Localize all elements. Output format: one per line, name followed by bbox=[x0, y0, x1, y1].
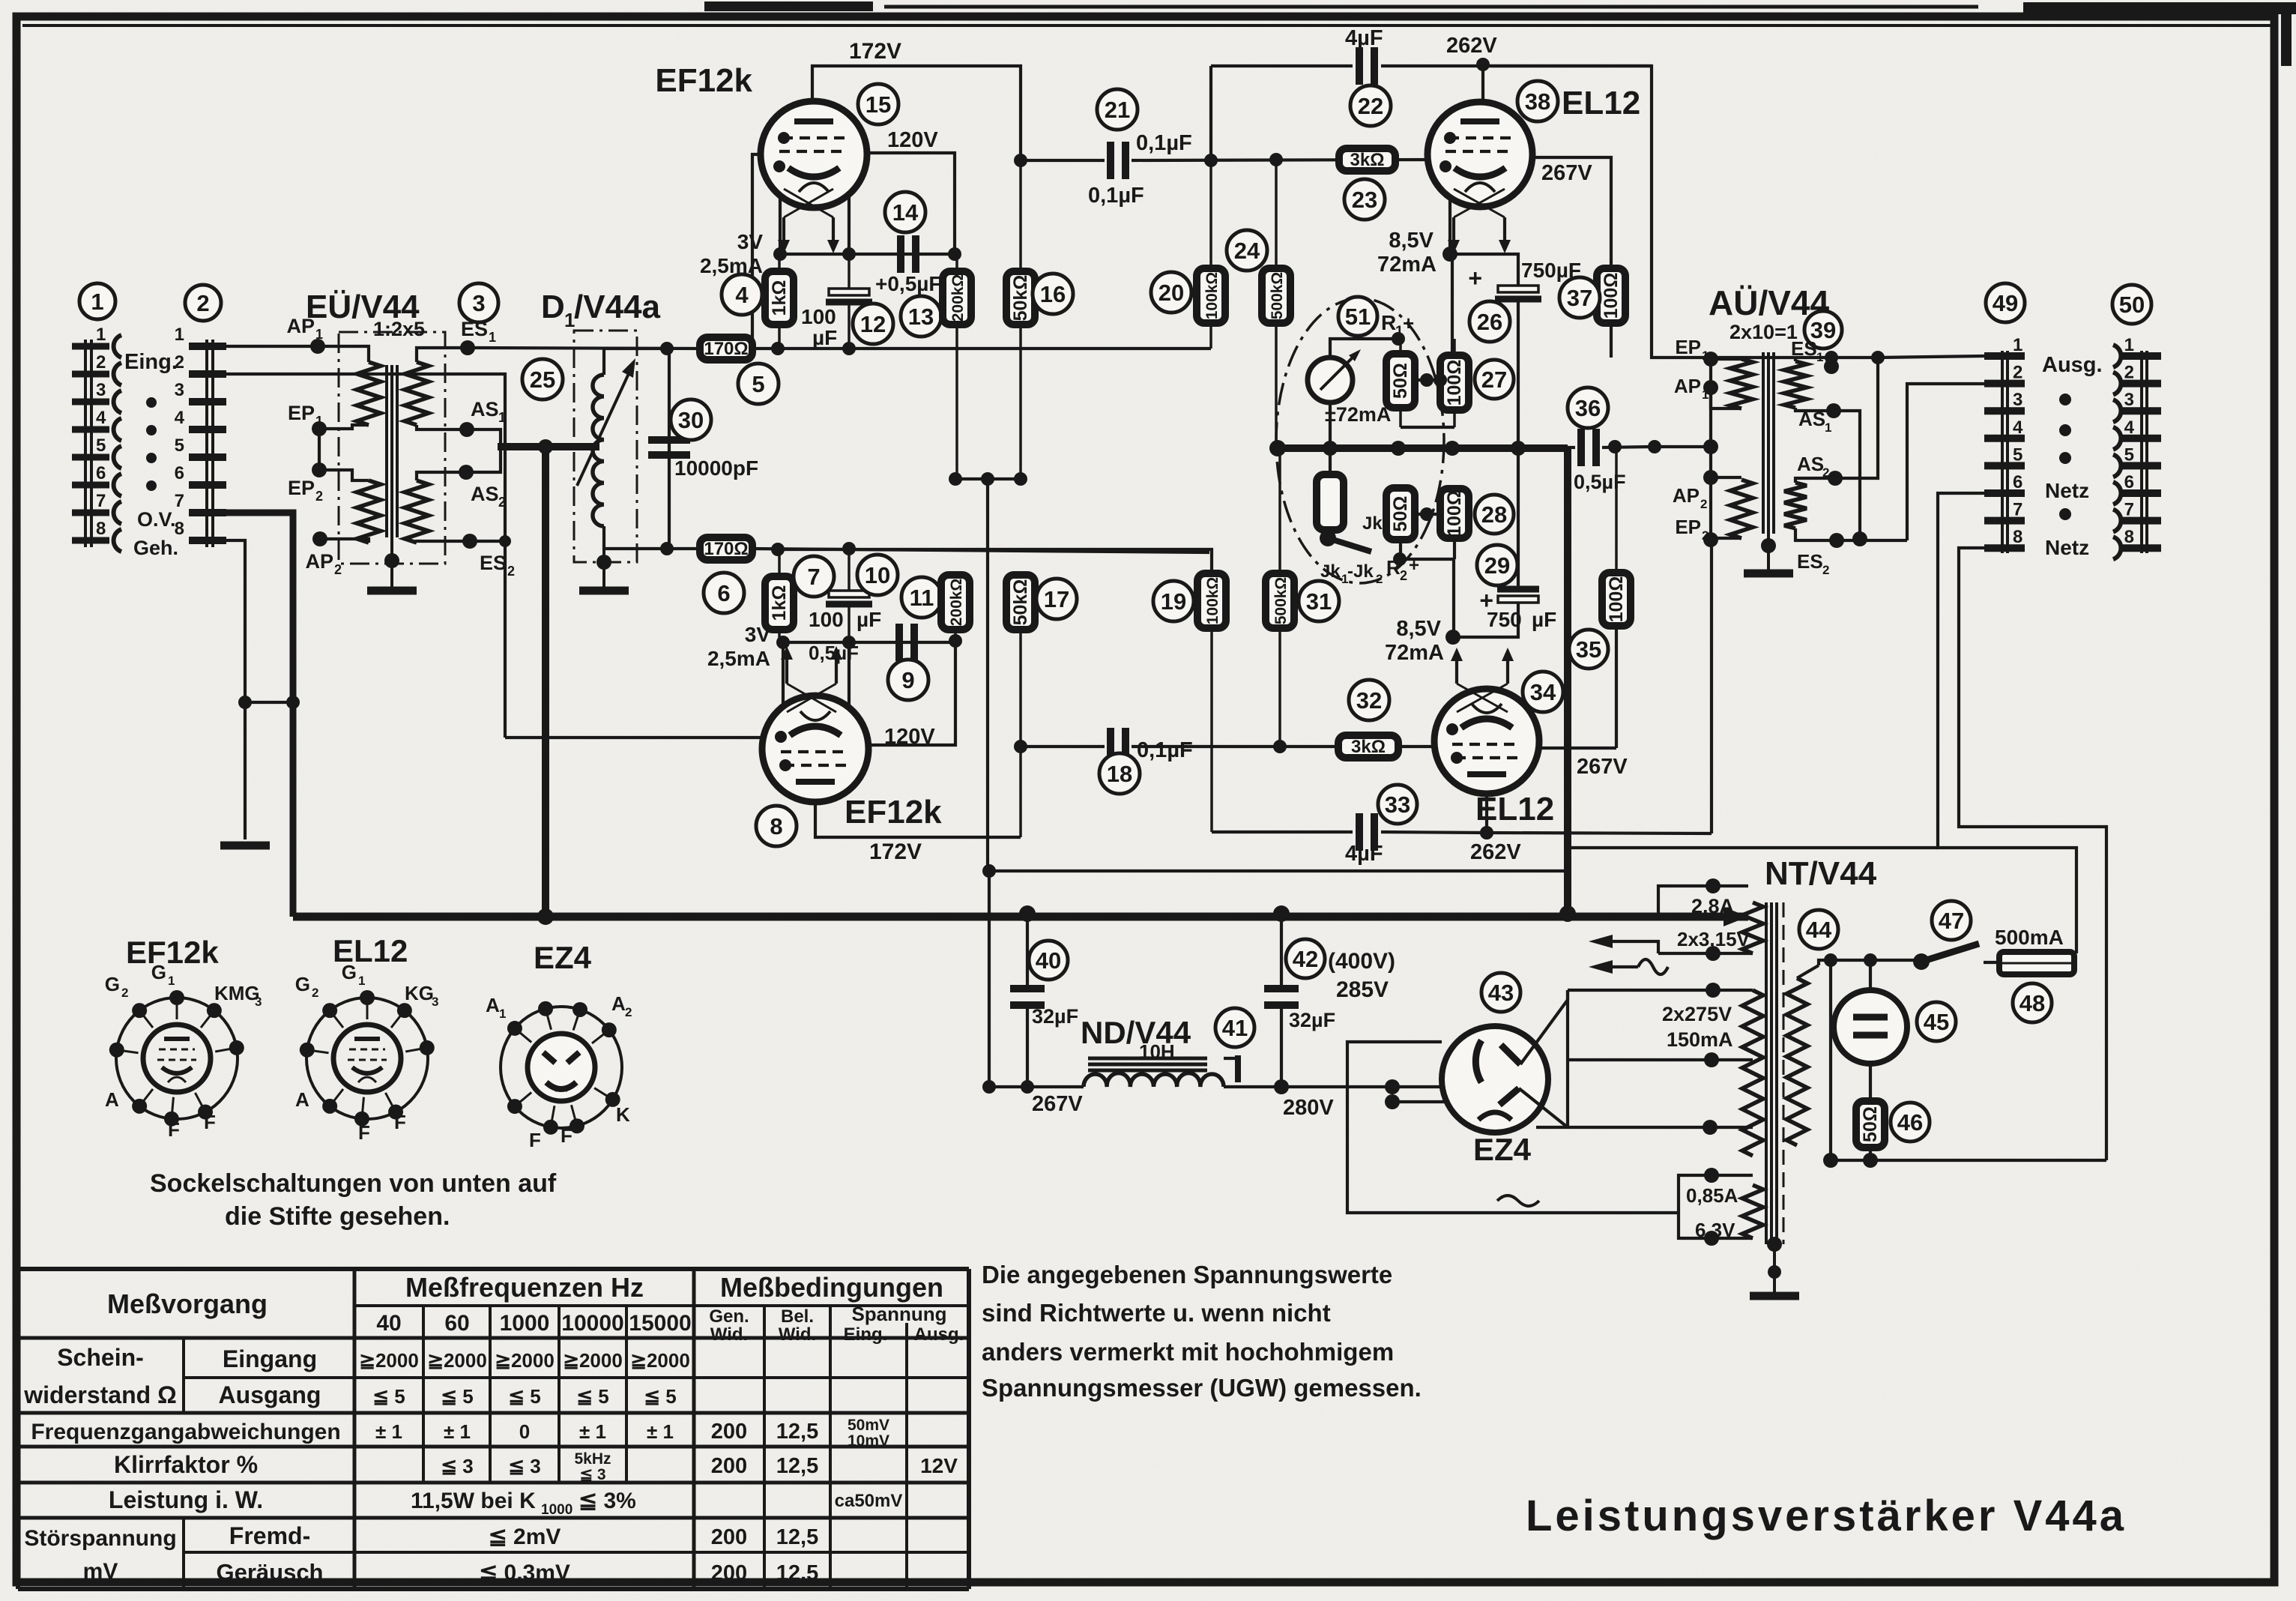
svg-text:≦ 5: ≦ 5 bbox=[372, 1385, 405, 1408]
wire secondary upper bottom to AS1 bbox=[417, 425, 467, 429]
heater cross tube38 bbox=[1454, 189, 1505, 217]
svg-text:Eing.: Eing. bbox=[844, 1324, 888, 1345]
svg-text:5: 5 bbox=[175, 435, 184, 456]
wire 4uF rail y1110 bbox=[1212, 830, 1353, 833]
ref circle 36 bbox=[1568, 388, 1608, 428]
junction dot rail-top at D1 bbox=[660, 342, 674, 355]
ref circle 32 bbox=[1349, 680, 1389, 720]
resistor R23 3k bbox=[1339, 148, 1395, 171]
ref circle 18 bbox=[1099, 753, 1140, 794]
svg-text:6: 6 bbox=[175, 463, 184, 483]
resistor R35 100R bbox=[1615, 447, 1618, 573]
resistor R17 50k bbox=[1006, 575, 1035, 630]
svg-text:AP: AP bbox=[305, 550, 333, 573]
svg-text:2: 2 bbox=[312, 986, 318, 1000]
heater arrows tube8 bbox=[781, 646, 793, 660]
capacitor C12 100uF bbox=[848, 254, 851, 289]
svg-text:750: 750 bbox=[1487, 608, 1522, 631]
svg-text:ES: ES bbox=[1797, 550, 1823, 573]
svg-text:+: + bbox=[1403, 312, 1414, 334]
junction dot cathode38 bbox=[1442, 247, 1457, 262]
svg-text:Bel.: Bel. bbox=[781, 1306, 814, 1327]
capacitor C9 0.5uF bbox=[895, 624, 903, 661]
svg-text:5: 5 bbox=[2013, 444, 2022, 465]
svg-text:NT/V44: NT/V44 bbox=[1765, 855, 1877, 892]
wire EP2 drop bbox=[1710, 540, 1713, 833]
svg-text:200: 200 bbox=[711, 1420, 747, 1444]
svg-text:4µF: 4µF bbox=[1345, 842, 1383, 866]
svg-text:24: 24 bbox=[1234, 238, 1260, 264]
svg-text:2: 2 bbox=[1376, 572, 1383, 586]
svg-text:ES: ES bbox=[1791, 337, 1817, 360]
ref circle 49 bbox=[1986, 283, 2025, 322]
wire 172V bottom bbox=[815, 802, 1021, 837]
svg-text:2: 2 bbox=[2013, 363, 2022, 383]
svg-text:32µF: 32µF bbox=[1289, 1009, 1335, 1031]
scan smudge top-left bbox=[704, 1, 873, 11]
svg-text:1: 1 bbox=[489, 330, 496, 345]
thick drop x2092 bbox=[1564, 447, 1571, 917]
svg-text:1: 1 bbox=[96, 325, 106, 345]
wire D1 bottom to rail bbox=[604, 526, 667, 549]
ref circle 2 bbox=[185, 285, 221, 321]
tube V4 EL12 bottom bbox=[1434, 689, 1539, 794]
svg-text:EP: EP bbox=[1675, 516, 1701, 538]
svg-text:Eingang: Eingang bbox=[223, 1345, 317, 1372]
wire lower rail y732 bbox=[667, 547, 700, 550]
fuse F48 500mA bbox=[1999, 952, 2074, 974]
svg-text:≦ 5: ≦ 5 bbox=[508, 1385, 540, 1408]
scan smudge top-right bbox=[2023, 2, 2296, 14]
svg-text:50Ω: 50Ω bbox=[1390, 496, 1411, 532]
wire 267V drop x1320 bbox=[988, 871, 991, 1087]
svg-text:9: 9 bbox=[901, 667, 914, 693]
svg-text:F: F bbox=[358, 1121, 370, 1144]
wiper lever Jk1 bbox=[1320, 530, 1336, 546]
ref circle 41 bbox=[1215, 1008, 1254, 1047]
svg-text:44: 44 bbox=[1806, 917, 1832, 943]
svg-text:40: 40 bbox=[1036, 947, 1061, 974]
wire tube15 grid from rail bbox=[752, 154, 761, 349]
resistor R3k1 (unlabelled) bbox=[1317, 474, 1344, 530]
D1 ground symbol bbox=[579, 587, 629, 595]
svg-text:≦ 3%: ≦ 3% bbox=[578, 1489, 636, 1513]
wire meter bottom to bus bbox=[1329, 402, 1332, 448]
svg-text:100Ω: 100Ω bbox=[1601, 273, 1622, 319]
svg-text:50mV: 50mV bbox=[848, 1417, 889, 1434]
svg-text:4: 4 bbox=[2013, 417, 2023, 438]
capacitor C42 32uF bbox=[1264, 985, 1299, 992]
wire choke to 280V bbox=[1224, 1085, 1281, 1088]
junction dots upper rail bbox=[771, 342, 785, 355]
svg-text:1kΩ: 1kΩ bbox=[769, 280, 790, 316]
ref circle 39 bbox=[1804, 311, 1842, 349]
wire choke rail bbox=[989, 1085, 1084, 1088]
svg-text:sind Richtwerte u. wenn nicht: sind Richtwerte u. wenn nicht bbox=[982, 1299, 1331, 1327]
wire switch to fuse bbox=[1984, 961, 1999, 964]
choke ND/V44 core bbox=[1088, 1057, 1207, 1061]
svg-text:≧2000: ≧2000 bbox=[495, 1349, 555, 1372]
wire 267V top bbox=[1532, 157, 1611, 268]
svg-text:F: F bbox=[204, 1111, 216, 1133]
resistor R7 1k bbox=[778, 549, 781, 576]
svg-text:30: 30 bbox=[678, 407, 704, 433]
wire 4uF rail y88 bbox=[1211, 64, 1353, 67]
svg-text:ES: ES bbox=[480, 552, 507, 574]
border inner top line bbox=[22, 24, 2271, 27]
svg-text:21: 21 bbox=[1105, 97, 1130, 123]
ref circle 10 bbox=[857, 555, 898, 595]
svg-text:G: G bbox=[295, 973, 310, 995]
svg-text:± 1: ± 1 bbox=[444, 1420, 471, 1443]
svg-text:267V: 267V bbox=[1032, 1092, 1083, 1116]
socket diagram EF12k bbox=[116, 998, 238, 1119]
ref circle 26 bbox=[1469, 301, 1510, 342]
svg-text:2: 2 bbox=[121, 986, 128, 1000]
svg-text:6: 6 bbox=[96, 463, 106, 483]
svg-text:15: 15 bbox=[865, 91, 891, 118]
ref circle 34 bbox=[1523, 672, 1563, 712]
svg-text:50Ω: 50Ω bbox=[1860, 1106, 1881, 1142]
inductor D1 coil bbox=[593, 375, 604, 526]
svg-text:≦ 3: ≦ 3 bbox=[508, 1455, 540, 1477]
svg-text:500kΩ: 500kΩ bbox=[1272, 577, 1290, 625]
svg-text:45: 45 bbox=[1924, 1009, 1949, 1035]
ref circle 29 bbox=[1477, 545, 1517, 585]
svg-text:Die angegebenen Spannungswerte: Die angegebenen Spannungswerte bbox=[982, 1261, 1392, 1288]
svg-text:150mA: 150mA bbox=[1667, 1028, 1733, 1051]
cathode rail bottom y857 bbox=[783, 641, 955, 644]
ref circle 40 bbox=[1029, 941, 1068, 980]
svg-text:KMG: KMG bbox=[214, 982, 260, 1004]
svg-text:≦ 5: ≦ 5 bbox=[644, 1385, 676, 1408]
wire tube15 cathode right bbox=[848, 196, 851, 254]
svg-text:D: D bbox=[541, 289, 565, 325]
ref circle 4 bbox=[722, 274, 762, 315]
svg-text:267V: 267V bbox=[1541, 161, 1592, 185]
svg-text:/V44a: /V44a bbox=[574, 289, 661, 325]
socket diagram EL12 bbox=[306, 998, 428, 1119]
wire bus to AU bbox=[1652, 445, 1711, 448]
resistor R37 100R bbox=[1597, 268, 1625, 323]
wire 172V top rail bbox=[812, 66, 1021, 160]
svg-text:K: K bbox=[616, 1103, 630, 1126]
svg-text:10000: 10000 bbox=[561, 1311, 623, 1336]
svg-text:22: 22 bbox=[1358, 93, 1383, 119]
tube V2 EF12k bottom bbox=[762, 696, 868, 802]
wire HV top bbox=[1568, 989, 1753, 992]
capacitor C36 0.5uF bbox=[1568, 446, 1575, 449]
wire AP1 to primary top bbox=[318, 346, 369, 362]
junction dot R1 bbox=[1392, 332, 1405, 346]
connector St50 (output socket) bbox=[2140, 351, 2143, 553]
svg-text:anders vermerkt mit hochohmige: anders vermerkt mit hochohmigem bbox=[982, 1338, 1394, 1366]
svg-text:750µF: 750µF bbox=[1521, 259, 1581, 282]
svg-text:1: 1 bbox=[91, 289, 103, 315]
svg-text:12,5: 12,5 bbox=[776, 1420, 818, 1444]
heater cross tube15 bbox=[784, 189, 833, 217]
table grid bbox=[18, 1267, 969, 1271]
resistor R6 170R bbox=[700, 537, 752, 560]
ref circle 11 bbox=[901, 577, 942, 618]
capacitor C10 100uF bbox=[848, 549, 851, 591]
svg-text:Meßvorgang: Meßvorgang bbox=[107, 1288, 268, 1319]
svg-text:F: F bbox=[561, 1124, 573, 1147]
wire tube34 bottom to EP2 drop bbox=[1485, 794, 1488, 833]
capacitor C22 4uF bbox=[1356, 47, 1363, 85]
svg-text:10: 10 bbox=[865, 562, 890, 588]
svg-text:Spannungsmesser (UGW) gemessen: Spannungsmesser (UGW) gemessen. bbox=[982, 1374, 1422, 1402]
svg-text:1: 1 bbox=[1825, 420, 1831, 435]
svg-text:1: 1 bbox=[499, 1007, 506, 1021]
NT winding HV bbox=[1742, 990, 1763, 1156]
ref circle 50 bbox=[2112, 285, 2151, 324]
wire 267V bottom bbox=[1539, 747, 1616, 750]
resistor R11 200k bbox=[941, 575, 970, 630]
svg-text:Jk: Jk bbox=[1362, 513, 1383, 534]
svg-text:42: 42 bbox=[1293, 946, 1318, 972]
svg-text:Geräusch: Geräusch bbox=[216, 1559, 323, 1585]
svg-text:≦ 0,3mV: ≦ 0,3mV bbox=[479, 1561, 570, 1585]
svg-text:12V: 12V bbox=[920, 1454, 958, 1477]
svg-text:EF12k: EF12k bbox=[655, 62, 752, 99]
svg-text:Ausg.: Ausg. bbox=[914, 1324, 964, 1345]
svg-text:172V: 172V bbox=[869, 839, 922, 864]
link 50R-100R dots bbox=[1420, 373, 1434, 387]
socket diagram EZ4 bbox=[501, 1007, 622, 1128]
svg-text:≧2000: ≧2000 bbox=[630, 1349, 690, 1372]
AU primary winding lower bbox=[1711, 476, 1741, 479]
vertical x2092 anode link bbox=[1566, 990, 1569, 1127]
EZ4 anode1 wire bbox=[1520, 990, 1568, 1064]
svg-text:262V: 262V bbox=[1446, 34, 1497, 58]
svg-text:1: 1 bbox=[315, 414, 323, 429]
svg-text:3V: 3V bbox=[737, 230, 764, 253]
svg-text:8: 8 bbox=[770, 813, 782, 839]
svg-text:38: 38 bbox=[1525, 88, 1550, 115]
svg-text:100: 100 bbox=[801, 305, 836, 328]
svg-text:EF12k: EF12k bbox=[845, 794, 942, 830]
svg-text:50kΩ: 50kΩ bbox=[1010, 579, 1031, 626]
svg-text:2: 2 bbox=[315, 489, 323, 504]
lamp L45 bbox=[1869, 960, 1872, 990]
svg-text:R: R bbox=[1381, 311, 1396, 334]
svg-text:F: F bbox=[394, 1111, 406, 1133]
cathode rail top y339 bbox=[780, 253, 955, 256]
svg-text:11,5W bei K: 11,5W bei K bbox=[411, 1489, 536, 1513]
svg-text:Frequenzgangabweichungen: Frequenzgangabweichungen bbox=[31, 1420, 340, 1444]
heater arrows tube15 bbox=[778, 240, 790, 253]
connector St1 (input socket, circle 1) bbox=[84, 340, 87, 547]
junction dot 1362-996 bbox=[1014, 740, 1027, 753]
wire HV mid bbox=[1568, 1058, 1753, 1061]
link EP1-EP2 bbox=[318, 429, 321, 470]
svg-text:51: 51 bbox=[1345, 304, 1371, 330]
B+ drop x1318 bbox=[986, 479, 989, 871]
svg-text:1: 1 bbox=[498, 410, 506, 425]
wire 280V into EZ4 bbox=[1281, 1085, 1442, 1088]
svg-text:1: 1 bbox=[168, 974, 175, 988]
svg-text:A: A bbox=[486, 994, 500, 1016]
svg-text:Spannung: Spannung bbox=[851, 1303, 946, 1325]
svg-text:8: 8 bbox=[175, 519, 184, 539]
wire upper rail y465 bbox=[468, 348, 700, 349]
wire secondary tops bbox=[1794, 358, 1797, 361]
svg-text:27: 27 bbox=[1481, 367, 1507, 393]
ref circle 31 bbox=[1299, 581, 1339, 621]
capacitor C40 32uF bbox=[1010, 985, 1045, 992]
svg-text:19: 19 bbox=[1161, 588, 1186, 615]
svg-text:Fremd-: Fremd- bbox=[229, 1522, 310, 1549]
svg-text:50Ω: 50Ω bbox=[1390, 363, 1411, 399]
svg-text:50kΩ: 50kΩ bbox=[1010, 275, 1031, 322]
svg-text:µF: µF bbox=[857, 608, 881, 631]
svg-text:(400V): (400V) bbox=[1328, 949, 1395, 974]
wire D1 top to rail bbox=[604, 349, 667, 375]
terminal EP1 bbox=[1703, 352, 1718, 367]
ref circle 46 bbox=[1891, 1103, 1930, 1142]
svg-text:170Ω: 170Ω bbox=[704, 339, 748, 359]
ref circle 7 bbox=[794, 556, 834, 597]
inductor D1 dash-dot box bbox=[574, 331, 637, 562]
NT 2.8A loop bbox=[1658, 886, 1748, 913]
svg-text:46: 46 bbox=[1897, 1109, 1923, 1136]
AU ground symbol bbox=[1744, 570, 1793, 578]
wire EP2 to primary lower top bbox=[319, 470, 369, 480]
filament squiggle bbox=[1497, 1196, 1539, 1206]
svg-text:43: 43 bbox=[1488, 980, 1514, 1006]
svg-text:7: 7 bbox=[96, 491, 106, 511]
AU core bbox=[1762, 352, 1765, 534]
svg-text:Gen.: Gen. bbox=[709, 1306, 749, 1327]
main bus y598 thick bbox=[1278, 444, 1568, 452]
resistor R50a 50R bbox=[1399, 339, 1402, 354]
thick bus D1 drop to main bus bbox=[542, 447, 549, 917]
svg-text:5kHz: 5kHz bbox=[574, 1450, 611, 1468]
svg-text:4: 4 bbox=[175, 408, 185, 428]
ref circle 1 bbox=[79, 283, 115, 319]
svg-text:1:2x5: 1:2x5 bbox=[373, 318, 425, 340]
EU primary winding upper bbox=[357, 362, 381, 425]
svg-text:1000: 1000 bbox=[541, 1502, 573, 1518]
connector St2 (amp input terminals, circle 2) bbox=[205, 340, 208, 547]
meter M1 72mA bbox=[1308, 358, 1353, 402]
capacitor C30 10000pF bbox=[648, 436, 690, 444]
wire AU left column bbox=[1709, 358, 1712, 540]
svg-text:4: 4 bbox=[2124, 417, 2135, 438]
svg-text:31: 31 bbox=[1306, 588, 1332, 615]
svg-text:267V: 267V bbox=[1577, 755, 1628, 779]
junction dot 1362-214 bbox=[1014, 154, 1027, 167]
wire AS1 to thick node bbox=[467, 429, 501, 444]
ref circle 21 bbox=[1097, 89, 1138, 130]
ref circle 5 bbox=[738, 364, 779, 404]
svg-text:16: 16 bbox=[1040, 281, 1066, 307]
heater arrow A bbox=[1589, 935, 1613, 948]
bus dots bbox=[537, 908, 554, 925]
wire C42 drop bbox=[1280, 917, 1283, 989]
wire tube8 cathode left bbox=[782, 642, 785, 705]
svg-text:A: A bbox=[105, 1088, 119, 1111]
svg-text:3V: 3V bbox=[745, 623, 771, 646]
wire EP1 to primary upper bottom bbox=[319, 425, 369, 429]
link y639 bbox=[955, 477, 1021, 480]
svg-text:285V: 285V bbox=[1336, 977, 1389, 1002]
svg-text:1: 1 bbox=[315, 327, 323, 342]
terminal AS2 bbox=[1828, 471, 1843, 486]
ref circle 51 bbox=[1338, 297, 1377, 336]
svg-text:1: 1 bbox=[2013, 335, 2022, 355]
svg-text:EF12k: EF12k bbox=[126, 935, 219, 970]
svg-text:10H: 10H bbox=[1139, 1040, 1175, 1063]
svg-text:200: 200 bbox=[711, 1454, 747, 1478]
svg-text:3: 3 bbox=[2013, 390, 2022, 410]
svg-text:3kΩ: 3kΩ bbox=[1351, 737, 1386, 757]
svg-text:A: A bbox=[295, 1088, 309, 1111]
svg-text:6: 6 bbox=[2013, 472, 2022, 492]
capacitor C33 4uF bbox=[1356, 813, 1363, 851]
svg-text:O.V.: O.V. bbox=[137, 508, 176, 531]
terminal AS2 bbox=[459, 465, 474, 480]
svg-text:26: 26 bbox=[1477, 309, 1502, 335]
EU core bbox=[385, 365, 388, 537]
svg-text:4µF: 4µF bbox=[1345, 26, 1383, 50]
svg-text:36: 36 bbox=[1575, 395, 1601, 421]
svg-text:1: 1 bbox=[175, 325, 184, 345]
capacitor C26 750uF bbox=[1450, 254, 1518, 285]
svg-text:1: 1 bbox=[1702, 349, 1709, 363]
svg-text:170Ω: 170Ω bbox=[704, 539, 748, 559]
svg-text:500kΩ: 500kΩ bbox=[1269, 272, 1286, 320]
svg-text:± 1: ± 1 bbox=[579, 1420, 606, 1443]
NT ground stem bbox=[1767, 1237, 1782, 1252]
junction dots 267V node bbox=[982, 1080, 996, 1094]
main thick bus y1223 bbox=[293, 913, 1748, 921]
ref circle 17 bbox=[1036, 579, 1077, 619]
svg-text:40: 40 bbox=[376, 1311, 401, 1336]
ref circle 22 bbox=[1350, 85, 1391, 126]
svg-text:Eing.: Eing. bbox=[124, 350, 178, 374]
svg-text:100kΩ: 100kΩ bbox=[1204, 577, 1221, 625]
choke tap bar bbox=[1235, 1055, 1241, 1082]
wire 120V top to grid2 node bbox=[867, 153, 955, 254]
heater cross tube34 bbox=[1457, 684, 1508, 712]
svg-text:1: 1 bbox=[1816, 350, 1823, 364]
D1 ground stem bbox=[602, 526, 605, 588]
EU ground symbol bbox=[367, 587, 417, 595]
svg-text:5: 5 bbox=[752, 371, 764, 397]
svg-text:µF: µF bbox=[1532, 608, 1556, 631]
svg-text:6,3V: 6,3V bbox=[1695, 1219, 1735, 1241]
ref circle 48 bbox=[2013, 983, 2052, 1022]
svg-text:47: 47 bbox=[1939, 908, 1964, 934]
svg-text:AP: AP bbox=[1674, 375, 1701, 397]
svg-text:Wid.: Wid. bbox=[710, 1324, 748, 1345]
svg-text:0,1µF: 0,1µF bbox=[1137, 738, 1193, 762]
svg-text:die Stifte gesehen.: die Stifte gesehen. bbox=[225, 1202, 450, 1231]
svg-text:60: 60 bbox=[444, 1311, 469, 1336]
svg-text:EZ4: EZ4 bbox=[534, 940, 592, 975]
wire cathode38 down bbox=[1451, 254, 1454, 355]
svg-text:0,5µF: 0,5µF bbox=[809, 642, 859, 664]
svg-text:0,1µF: 0,1µF bbox=[1088, 184, 1144, 208]
svg-text:≧2000: ≧2000 bbox=[427, 1349, 487, 1372]
ref circle 8 bbox=[756, 806, 797, 846]
svg-text:4: 4 bbox=[735, 282, 749, 308]
ref circle 28 bbox=[1475, 495, 1514, 534]
wire tube15 cathode left bbox=[779, 196, 782, 254]
svg-text:12,5: 12,5 bbox=[776, 1454, 818, 1478]
